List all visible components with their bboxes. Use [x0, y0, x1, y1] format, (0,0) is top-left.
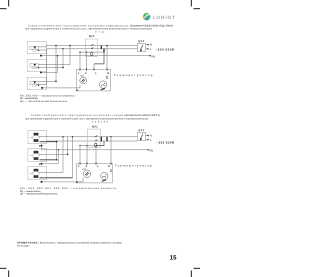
junction dots lower	[39, 136, 112, 183]
svg-text:N: N	[108, 165, 110, 168]
wires lower schematic	[39, 136, 148, 182]
thermostat box upper	[76, 68, 110, 91]
stub L lower	[146, 139, 149, 141]
heater element EK2 symbol	[30, 64, 39, 69]
wires upper schematic	[37, 46, 150, 88]
wire EK3 top lower	[39, 137, 63, 173]
switch box VU1 upper	[85, 35, 97, 57]
contact 3	[91, 52, 93, 56]
crop mark top-right	[191, 0, 200, 9]
stub N lower	[146, 135, 149, 137]
svg-text:при групповом подключении к эл: при групповом подключении к электрическо…	[25, 117, 148, 120]
svg-text:Выключатель, терморегулятор и: Выключатель, терморегулятор и вытяжной п…	[40, 241, 123, 244]
wire EK3 vertical lower	[72, 137, 74, 178]
svg-text:~220-230В: ~220-230В	[157, 140, 175, 144]
logo icon	[143, 13, 150, 21]
corner junction	[76, 90, 78, 92]
sensor circle	[80, 77, 87, 84]
crop mark bottom-right	[191, 268, 200, 277]
wire riser terminal N	[106, 46, 108, 70]
PE terminal lower	[147, 149, 148, 150]
wire riser terminal 1 lower	[79, 146, 81, 164]
sensor circle lower	[83, 170, 90, 177]
heating lead EK3 lower	[40, 177, 73, 179]
wire PE	[41, 55, 150, 57]
thermostat box lower	[76, 162, 112, 183]
wire elbow to L terminal upper	[94, 52, 104, 64]
wire L bus	[47, 48, 138, 50]
contact 1	[91, 44, 94, 45]
heater box EK2	[27, 59, 46, 71]
stub N	[146, 44, 149, 46]
wire EK1 top lower	[39, 135, 47, 138]
svg-text:и т.д.: и т.д.	[95, 31, 105, 34]
PE terminal upper	[149, 55, 150, 56]
svg-text:QF — автоматический выключател: QF — автоматический выключатель.	[20, 100, 68, 103]
cable box EK3 lower	[28, 167, 47, 180]
contact 2	[91, 48, 94, 49]
cable element EK3 lower	[30, 169, 40, 178]
inner contact mark lower	[110, 169, 112, 172]
wire PE drop EK1 lower	[41, 146, 43, 150]
cable box EK2 lower	[28, 149, 47, 162]
wire load line lower	[80, 145, 100, 147]
svg-text:при групповом подключении к эл: при групповом подключении к электрическо…	[25, 28, 152, 31]
wire EK2 bottom	[37, 49, 63, 68]
breaker box QF1 upper	[138, 40, 149, 51]
cable box EK1 lower	[28, 131, 47, 144]
svg-text:кабеля: кабеля	[92, 120, 109, 123]
svg-text:PE: PE	[152, 54, 156, 58]
heater element EK1 symbol	[30, 46, 39, 51]
svg-text:N: N	[107, 72, 109, 75]
wire EK2 vertical lower	[56, 142, 58, 160]
breaker box QF1 lower	[138, 129, 149, 140]
heater box EK1	[27, 42, 46, 54]
wire N bus	[47, 45, 138, 47]
heater element EK3 symbol	[30, 81, 39, 86]
svg-text:PE: PE	[150, 148, 154, 152]
wire EK3 bottom	[37, 49, 47, 85]
wire EK3 top	[38, 46, 56, 82]
link bar N-L upper	[100, 45, 102, 49]
wire riser terminal 2 lower	[86, 146, 88, 164]
wire EK1 top	[38, 46, 46, 47]
svg-text:не входят.: не входят.	[17, 244, 30, 247]
heating lead EK2 lower	[40, 159, 57, 161]
wire PE tap EK3 lower	[42, 177, 84, 182]
svg-text:NTC: NTC	[82, 168, 87, 171]
wire L bus lower	[47, 140, 138, 142]
contact 2 lower	[95, 140, 98, 141]
corner junction lower	[76, 181, 78, 183]
wire PE tap EK3	[42, 85, 80, 88]
cable element EK2 lower	[30, 151, 40, 160]
wire EK1 bottom	[37, 49, 47, 51]
wire EK2 top lower	[39, 137, 68, 155]
svg-text:ВУ1: ВУ1	[92, 126, 98, 129]
wire EK2 top	[38, 46, 70, 65]
contact 1 lower	[95, 136, 98, 137]
link bar L-load upper	[103, 49, 105, 53]
terminal ticks	[80, 68, 107, 70]
wire N bus lower	[47, 136, 138, 138]
wire PE tap EK2 lower	[42, 150, 59, 164]
inner contact mark	[106, 76, 108, 79]
wire riser terminal 2	[86, 52, 88, 69]
crop mark bottom-left	[0, 268, 9, 277]
relay circle	[100, 81, 107, 88]
wire load line	[80, 51, 104, 53]
wire riser terminal L	[93, 64, 95, 69]
wire riser terminal 1	[79, 52, 81, 69]
svg-text:QF1: QF1	[138, 40, 144, 43]
svg-text:1 2: 1 2	[78, 72, 87, 75]
wire PE lower	[42, 149, 149, 151]
junction dots upper	[40, 45, 108, 89]
cable element EK1 lower	[30, 133, 40, 142]
terminal ticks lower	[80, 162, 111, 164]
wire PE tap EK2	[41, 56, 58, 73]
contact 3 lower	[95, 143, 97, 147]
svg-text:LORIOT: LORIOT	[153, 15, 176, 20]
crop mark top-left	[0, 0, 9, 9]
link bar 2 lower	[106, 137, 108, 142]
svg-text:QF1: QF1	[138, 129, 144, 132]
stub L	[146, 48, 149, 50]
heating lead EK1 lower	[40, 141, 57, 143]
heater box EK3	[27, 77, 46, 89]
svg-text:ВУ1: ВУ1	[89, 35, 95, 38]
wire riser terminal L lower	[95, 146, 97, 164]
svg-text:QF — автоматический выключател: QF — автоматический выключатель.	[20, 192, 58, 195]
switch box VU1 lower	[88, 126, 101, 148]
relay circle lower	[101, 172, 108, 179]
wire elbow to L terminal lower	[96, 141, 104, 146]
svg-text:~220-230В: ~220-230В	[156, 47, 175, 51]
wire riser terminal N lower	[110, 137, 112, 164]
svg-text:15: 15	[170, 255, 177, 262]
link bar N-L lower	[100, 137, 102, 142]
